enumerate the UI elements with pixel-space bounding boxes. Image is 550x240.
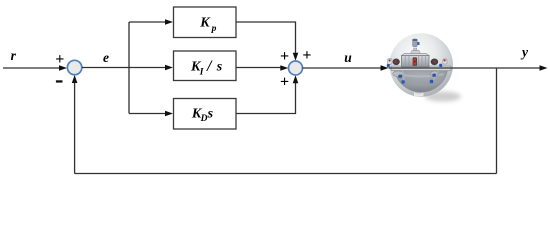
svg-text:+: + (55, 51, 64, 68)
wire KI to summing junction S2 (236, 67, 281, 69)
svg-text:+: + (302, 47, 311, 64)
svg-text:K: K (199, 15, 211, 30)
wire S2 to plant u (303, 67, 382, 69)
svg-text:D: D (200, 114, 208, 124)
wire Kp to summing junction S2 (236, 22, 296, 53)
wire branch to KD (129, 113, 166, 115)
block KDs (174, 99, 237, 130)
wire branch to KI (129, 67, 166, 69)
wire across plant to output y (389, 67, 541, 69)
block Kp (174, 7, 237, 38)
svg-text:I: I (199, 67, 204, 77)
svg-text:s: s (216, 60, 223, 75)
summing junction S2 (289, 61, 303, 75)
svg-text:s: s (207, 107, 214, 122)
feedback tap wire down (496, 68, 498, 174)
wire KD to summing junction S2 (236, 83, 296, 114)
wire r to summing junction S1 (3, 67, 60, 69)
feedback wire up to S1 (74, 82, 76, 174)
summing junction S1 (67, 60, 81, 74)
block KI/s (174, 51, 237, 81)
wire branch to Kp (129, 21, 166, 23)
red indicator on chassis (413, 57, 417, 65)
sign - at S1 (56, 80, 63, 82)
right thruster pod (431, 59, 439, 66)
bottom notch (414, 92, 424, 96)
svg-text:p: p (211, 24, 217, 34)
top antenna (413, 39, 418, 47)
hanging pod left (393, 71, 403, 77)
svg-text:+: + (280, 48, 289, 65)
svg-text:+: + (280, 74, 289, 91)
central chassis box (402, 53, 430, 55)
branch vertical wire (128, 22, 130, 114)
left thruster pod (393, 59, 400, 66)
feedback bottom wire (75, 173, 497, 175)
hanging pod right (431, 71, 439, 77)
chassis lid bump (411, 50, 421, 53)
blue fittings (398, 75, 402, 78)
svg-text:r: r (11, 48, 17, 63)
svg-text:u: u (344, 50, 352, 65)
equator flange (391, 66, 451, 71)
shadow (425, 92, 461, 102)
svg-text:e: e (103, 50, 109, 65)
svg-text:y: y (520, 45, 529, 60)
plant: spherical robot (387, 33, 461, 101)
lower hull (395, 71, 448, 92)
wire S1 to branch point (82, 67, 129, 69)
sphere shell (389, 33, 453, 97)
